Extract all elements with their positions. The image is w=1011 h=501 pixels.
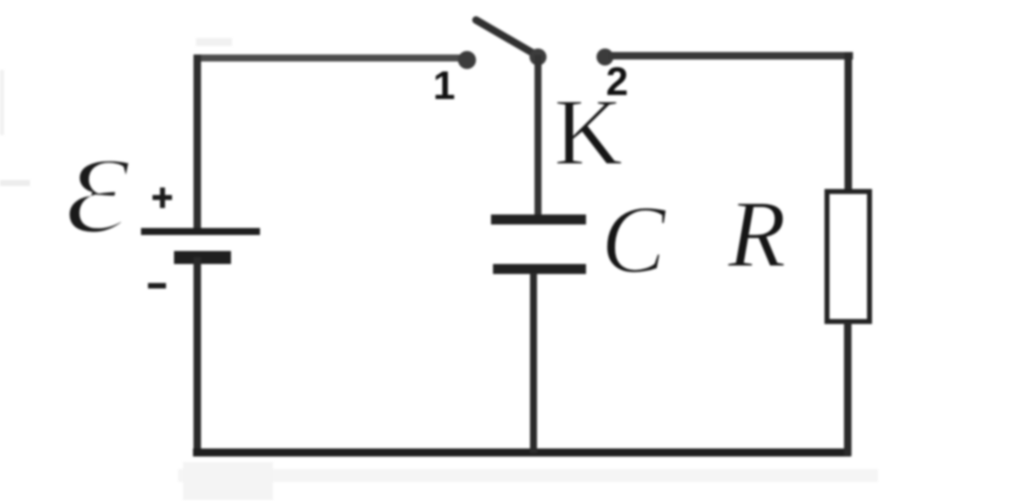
- switch K contact 1 dot: [458, 51, 476, 69]
- switch K pivot dot: [530, 49, 547, 66]
- svg-text:1: 1: [433, 64, 455, 108]
- resistor R body: [827, 192, 870, 322]
- battery plus sign: [153, 188, 173, 209]
- battery E1 negative plate (short thick): [174, 251, 231, 264]
- wire middle vertical upper (pivot down to capacitor): [535, 55, 542, 215]
- wire top-left horizontal (battery top to switch contact 1): [194, 55, 466, 62]
- scan artifact streak far left: [0, 70, 4, 135]
- scan artifact smudge bottom-left: [183, 462, 273, 500]
- svg-text:K: K: [554, 79, 623, 185]
- wire middle vertical lower (capacitor to bottom wire): [530, 273, 537, 453]
- wire right vertical lower (resistor to bottom wire): [844, 322, 852, 456]
- scan artifact dash left edge: [0, 180, 30, 186]
- svg-text:C: C: [601, 186, 667, 293]
- wire bottom horizontal: [193, 449, 851, 457]
- svg-text:ε: ε: [64, 95, 132, 267]
- wire left vertical lower (battery - plate down to bottom wire): [194, 257, 202, 456]
- scan artifact marks above top-left wire: [196, 38, 232, 46]
- switch K contact 2 dot: [597, 49, 614, 66]
- battery minus sign: [148, 283, 166, 289]
- wire top-right horizontal (contact 2 to right branch): [609, 52, 853, 60]
- switch K lever (thrown toward contact 1 side): [476, 20, 538, 56]
- wire left vertical upper (top wire down to battery + plate): [194, 55, 202, 232]
- wire right vertical upper (top wire to resistor): [845, 52, 853, 192]
- capacitor C bottom plate: [493, 264, 586, 274]
- scan artifact faint band below bottom wire: [178, 469, 878, 482]
- svg-text:R: R: [727, 181, 786, 287]
- capacitor C top plate: [491, 215, 586, 225]
- battery E1 positive plate (long thin): [141, 228, 260, 235]
